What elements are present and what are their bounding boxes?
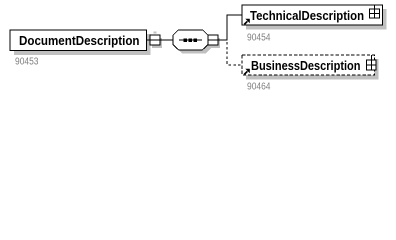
sequence dot 2 xyxy=(189,38,192,41)
svg-text:90453: 90453 xyxy=(15,57,39,68)
element box DocumentDescription xyxy=(10,30,147,51)
expand handle (minus) of sequence xyxy=(208,35,218,45)
svg-text:90454: 90454 xyxy=(247,32,271,43)
plus handle of BusinessDescription xyxy=(367,60,376,70)
svg-text:DocumentDescription: DocumentDescription xyxy=(19,33,140,48)
plus handle of TechnicalDescription xyxy=(370,9,380,18)
sequence octagon xyxy=(173,30,208,50)
element box TechnicalDescription xyxy=(242,5,383,25)
stem of TechnicalDescription plus handle xyxy=(374,5,376,9)
wire handle1 to sequence xyxy=(160,39,173,41)
expand handle (minus) of DocumentDescription xyxy=(150,35,160,45)
trunk down dashed xyxy=(226,42,228,65)
trunk up solid xyxy=(226,15,228,41)
shadow of handle 1 xyxy=(152,38,162,48)
element box BusinessDescription (optional, dashed) xyxy=(242,55,375,75)
shadow of handle 2 xyxy=(210,38,220,48)
small gray mark above handle 1 xyxy=(154,32,157,34)
sequence dot 1 xyxy=(184,38,187,41)
shadow of DocumentDescription box xyxy=(14,34,151,55)
shadow of sequence octagon xyxy=(177,33,212,53)
shadow of BusinessDescription box xyxy=(246,59,379,80)
wire to BusinessDescription dashed xyxy=(229,64,242,66)
svg-text:BusinessDescription: BusinessDescription xyxy=(251,58,361,73)
reference arrow of BusinessDescription xyxy=(244,69,250,75)
wire DocumentDescription to handle1 xyxy=(147,39,152,41)
wire to TechnicalDescription xyxy=(227,14,242,16)
svg-text:TechnicalDescription: TechnicalDescription xyxy=(250,8,364,23)
stem of BusinessDescription plus handle xyxy=(370,55,372,60)
svg-text:90464: 90464 xyxy=(247,82,271,93)
shadow of TechnicalDescription box xyxy=(246,9,387,30)
reference arrow of TechnicalDescription xyxy=(244,19,250,25)
sequence interior line xyxy=(179,39,202,41)
wire sequence handle to trunk xyxy=(218,39,228,41)
sequence dot 3 xyxy=(194,38,197,41)
